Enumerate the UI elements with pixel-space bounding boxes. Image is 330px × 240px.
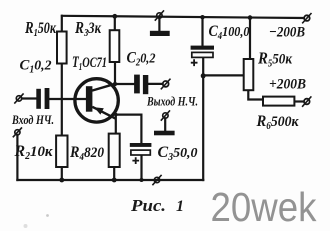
transistor Q1 collector line [92,84,115,91]
wire supply vertical [202,76,204,180]
wire R1 top stem [61,16,63,32]
svg-text:C20,2: C20,2 [127,50,156,69]
capacitor C4 plus sign [191,59,198,66]
node junction: bottom rail / R2 [59,178,64,183]
resistor R1 body [57,32,67,64]
capacitor C2 right plate [143,75,148,94]
svg-text:+200В: +200В [269,77,306,93]
wire R6 to terminal [294,100,303,102]
node junction: top rail / C4 [200,15,204,19]
wire R5 top stem [249,18,251,59]
svg-text:R210к: R210к [14,143,53,162]
wire ground stem output [164,118,166,131]
resistor R5 body [244,59,254,90]
wire emitter branch to C3 [116,113,142,115]
capacitor C4 electrolytic bottom plate [192,52,213,57]
node junction: emitter branch [114,113,118,117]
terminal output upper [161,79,171,90]
wire top rail [62,16,304,18]
resistor R2 body [56,136,67,168]
svg-text:C10,2: C10,2 [20,58,52,76]
ground chassis bar at output [154,131,175,136]
wire ground stem top center [158,18,160,31]
wire collector vertical [114,62,116,84]
terminal bottom rail (grounded) [152,175,161,185]
svg-text:R6500к: R6500к [256,113,299,132]
terminal input lower [13,127,22,137]
transistor Q1 emitter line [92,107,116,119]
wire emitter vertical [115,115,117,134]
scan artifact speck [46,214,49,217]
wire R2 bottom stem [61,167,63,180]
terminal -200V [302,13,311,23]
node junction: top rail / R5 [248,15,253,20]
node junction: bottom rail / C3 [140,178,144,182]
wire bottom rail [17,179,203,181]
capacitor C1 right plate [45,88,50,109]
svg-text:R33к: R33к [74,18,101,39]
svg-text:C350,0: C350,0 [158,144,198,163]
transistor Q1 circle [75,79,118,122]
transistor Q1 emitter arrow (PNP, toward base) [94,107,104,114]
terminal +200V [302,96,311,106]
svg-text:Выход Н.Ч.: Выход Н.Ч. [146,94,198,109]
resistor R4 body [109,134,120,167]
wire to R5 tap [203,74,244,76]
svg-text:Вход НЧ.: Вход НЧ. [11,112,54,127]
svg-text:Рис.: Рис. [130,196,166,215]
wire input to C1 [22,97,37,99]
svg-text:R4820: R4820 [69,144,104,163]
wire R5 bottom bend [248,90,263,99]
wire C4 top stem [201,17,203,46]
svg-text:1: 1 [176,198,184,215]
wire C2 to output terminal [148,83,162,85]
wire C3 bottom stem [140,155,142,180]
transistor Q1 base bar [86,86,93,112]
resistor R3 body [110,30,120,62]
terminal top center (grounded) [155,10,164,20]
node junction: collector / R3 / C2 [113,82,117,86]
wire collector to C2 [115,83,134,85]
node junction: top rail / R3 [112,14,117,19]
svg-text:C4100,0: C4100,0 [209,23,250,42]
wire C4 bottom stem [202,57,204,75]
wire base wire [50,98,87,100]
node junction: bottom rail / R4 [112,178,117,183]
capacitor C1 left plate [36,89,41,109]
svg-text:Т1ОС71: Т1ОС71 [72,54,107,73]
svg-text:R150к: R150к [24,18,56,39]
wire lower input stem [16,135,18,180]
svg-text:R550к: R550к [257,49,292,70]
terminal input upper [14,93,23,103]
terminal output lower [161,110,170,120]
node junction: C4 / supply vertical / R5 tap [201,73,206,78]
resistor R6 body (horizontal) [263,97,294,106]
capacitor C4 electrolytic top plate [191,46,214,50]
wire R4 bottom stem [113,167,115,180]
svg-text:20wek: 20wek [211,184,318,230]
wire C3 drop [140,115,142,144]
wire R3 top stem [114,16,116,30]
capacitor C3 electrolytic top plate [130,143,152,147]
capacitor C3 plus sign [132,157,139,164]
capacitor C2 left plate [134,75,140,94]
wire R1-R2 column [61,64,63,136]
ground chassis bar top center [150,31,170,36]
svg-text:−200В: −200В [269,25,305,41]
capacitor C3 electrolytic bottom plate [131,150,150,155]
